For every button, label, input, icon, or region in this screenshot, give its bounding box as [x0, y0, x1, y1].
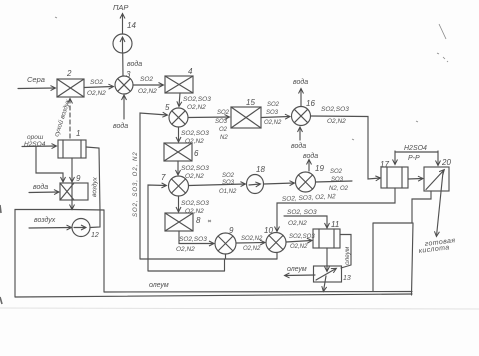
svg-text:O2,N2: O2,N2 [264, 120, 282, 126]
label SO2 SO3 O2,N2 (15-16) [264, 102, 282, 126]
label SO2,SO3 O2,N2 (8-9) [176, 236, 207, 253]
label воздух vertical [90, 176, 99, 197]
label SO2,N2 O2,N2 (9-10) [241, 236, 263, 252]
svg-text:SO2,SO3: SO2,SO3 [183, 96, 211, 103]
mixer 19 [296, 172, 316, 192]
svg-text:SO3: SO3 [331, 177, 344, 183]
label сухой воздух [52, 98, 72, 138]
svg-text:вода: вода [113, 122, 128, 130]
label SO2 SO3 N2 O2 (19 out) [329, 169, 349, 192]
label вода (3-14) [127, 60, 142, 68]
svg-text:O2,N2: O2,N2 [185, 173, 204, 180]
label 20 [441, 158, 451, 167]
mixer 10 [266, 233, 286, 253]
label SO2,SO3 O2,N2 (11 top) [287, 209, 317, 227]
svg-text:6: 6 [194, 149, 199, 158]
svg-text:2: 2 [66, 69, 72, 78]
wire 16 top vent [300, 89, 302, 106]
wire вода to 9 box [29, 191, 59, 194]
wire 16 to 17 [311, 116, 381, 179]
wire steam outlet ПАР [122, 14, 124, 34]
label Сера [27, 75, 45, 84]
converter 6 [164, 143, 192, 161]
label SO2 O2,N2 (3-4) [138, 76, 157, 95]
svg-text:4: 4 [188, 67, 193, 76]
wire 10 to 11 [286, 241, 312, 243]
svg-text:SO2,SO3: SO2,SO3 [179, 236, 207, 243]
label SO2,SO3 O2,N2 (7-8) [181, 200, 209, 215]
label 1 [76, 129, 80, 138]
label SO2 SO3 O1,N2 (7-18) [219, 173, 237, 195]
svg-text:19: 19 [315, 164, 324, 173]
svg-text:O2,N2: O2,N2 [138, 88, 157, 95]
wire 7 to 8 [178, 196, 180, 212]
wire 4 to 5 [179, 93, 180, 106]
svg-text:SO2: SO2 [267, 102, 280, 108]
svg-text:воздух: воздух [34, 216, 56, 224]
svg-text:ПАР: ПАР [113, 3, 128, 12]
label 6 [194, 149, 199, 158]
svg-text:O2,N2: O2,N2 [87, 90, 106, 97]
svg-text:O2,N2: O2,N2 [288, 220, 307, 227]
svg-text:SO2, SO3, O2, N2: SO2, SO3, O2, N2 [282, 193, 337, 203]
label 7 [161, 173, 166, 182]
svg-text:9: 9 [76, 174, 81, 183]
svg-text:16: 16 [306, 99, 315, 108]
svg-text:SO3: SO3 [266, 110, 279, 116]
scrubber 9 box [60, 183, 88, 200]
mixer 7 [169, 176, 189, 196]
label орош H2SO4 [24, 134, 46, 148]
wire mixer 9 bottom [225, 254, 227, 259]
wire recycle to 7 left [148, 185, 166, 271]
wire вода to 3 bottom [123, 96, 125, 120]
svg-text:14: 14 [127, 21, 136, 30]
wire 5 to 6 [178, 127, 180, 142]
svg-text:O2,N2: O2,N2 [327, 118, 346, 125]
svg-text:вода: вода [127, 60, 142, 68]
converter 4 [165, 76, 193, 93]
svg-text:7: 7 [161, 173, 166, 182]
svg-text:SO2, SO3, O2, N2: SO2, SO3, O2, N2 [133, 151, 139, 217]
svg-text:O2,N2: O2,N2 [185, 138, 204, 145]
svg-text:13: 13 [343, 275, 351, 282]
wire 15 to 16 [261, 117, 290, 118]
label 15 [246, 98, 255, 107]
svg-text:O2,N2: O2,N2 [290, 244, 308, 250]
svg-text:H2SO4: H2SO4 [404, 145, 427, 152]
mixer 5 [169, 108, 188, 127]
wire recycle drop x225 [224, 259, 226, 271]
svg-text:9: 9 [229, 226, 234, 235]
label готовая кислота [418, 237, 455, 255]
label 10 [264, 226, 273, 235]
wire 13 bottom drain [324, 276, 327, 291]
svg-text:вода: вода [291, 142, 306, 150]
label 16 [306, 99, 315, 108]
wire dry air dashed to 2 [69, 99, 71, 138]
svg-text:11: 11 [331, 220, 339, 229]
label воздух (fan inlet) [34, 216, 56, 224]
svg-text:олеум: олеум [149, 282, 169, 289]
label 8 [196, 216, 201, 225]
label SO2,SO3,O2,N2 (17-10 line) [282, 193, 337, 203]
wire воздух to fan 12 [29, 227, 71, 230]
svg-text:N2: N2 [220, 135, 228, 141]
label SO2,SO3 O2,N2 (6-7) [181, 165, 209, 180]
svg-text:SO2: SO2 [222, 173, 235, 179]
wire орош H2SO4 to 1 [22, 145, 56, 148]
wire 11 bottom to 13 [326, 248, 328, 271]
mixer 3 [115, 76, 133, 94]
svg-text:олеум: олеум [344, 246, 351, 265]
svg-text:SO2,SO3: SO2,SO3 [181, 130, 209, 137]
svg-text:10: 10 [264, 226, 273, 235]
furnace 2 [57, 79, 84, 97]
wire 19 top vent [308, 160, 310, 171]
wire 1 down through 9 box [71, 158, 73, 209]
wire 20 to product acid [437, 172, 444, 236]
label H2SO4 P-P [404, 145, 427, 162]
wire 3 to 4 [133, 84, 163, 86]
label олеум (bottom) [149, 282, 169, 289]
svg-text:1: 1 [76, 129, 80, 138]
svg-text:SO2,SO3: SO2,SO3 [321, 106, 349, 113]
label 12 [91, 232, 99, 239]
svg-text:O2,N2: O2,N2 [185, 208, 204, 215]
svg-text:SO2,N2: SO2,N2 [241, 236, 263, 242]
label 14 [127, 21, 136, 30]
svg-text:SO2,SO3: SO2,SO3 [181, 200, 209, 207]
svg-text:вода: вода [293, 78, 308, 86]
label SO2,SO3,O2,N2 vertical channel [133, 151, 139, 217]
svg-text:SO2: SO2 [140, 76, 153, 83]
wire oleum out left of 13 [285, 274, 315, 277]
wire recycle header lower [148, 270, 225, 272]
svg-text:орош: орош [27, 134, 44, 141]
wire 17 to 20 [408, 178, 423, 181]
svg-text:вода: вода [303, 152, 318, 160]
label 3 [126, 70, 131, 79]
svg-text:8: 8 [196, 216, 201, 225]
wire 9 to 10 [236, 242, 265, 245]
drying tower 1 [58, 140, 86, 158]
blower 18 [247, 175, 264, 194]
converter 8 [165, 213, 193, 231]
label 9 (mixer) [229, 226, 234, 235]
wire recycle to 5 left [140, 113, 167, 259]
svg-text:12: 12 [91, 232, 99, 239]
wire bottom oleum line [104, 291, 412, 294]
svg-text:SO2: SO2 [217, 110, 230, 116]
svg-text:H2SO4: H2SO4 [24, 141, 46, 148]
label ПАР [113, 3, 128, 12]
label SO2,SO3 O2,N2 (4-5) [183, 96, 211, 111]
svg-text:20: 20 [441, 158, 451, 167]
wire вода to 16 bottom [299, 128, 301, 141]
label 2 [66, 69, 72, 78]
wire outer bottom line [15, 294, 412, 297]
wire 7 to 18 [189, 184, 245, 186]
wire 2 to 3 [84, 87, 113, 88]
absorber 17 [381, 167, 408, 188]
wire 3 to steam drum 14 [122, 53, 124, 76]
svg-text:SO2: SO2 [330, 169, 343, 175]
svg-text:O1,N2: O1,N2 [219, 189, 237, 195]
fan 12 [72, 219, 90, 237]
svg-text:O2: O2 [219, 127, 228, 133]
wire recycle header upper [140, 258, 277, 260]
svg-text:SO2,SO3: SO2,SO3 [289, 234, 315, 240]
mixer 9 [215, 233, 236, 254]
label 4 [188, 67, 193, 76]
wire 11 right oleum loop [340, 235, 351, 269]
wire right lower loop [373, 223, 413, 295]
svg-text:SO3: SO3 [222, 180, 235, 186]
label 13 [343, 275, 351, 282]
svg-text:O2,N2: O2,N2 [187, 104, 206, 111]
svg-text:SO2,SO3: SO2,SO3 [181, 165, 209, 172]
svg-text:17: 17 [380, 160, 389, 169]
wire 5 to 15 [188, 116, 229, 119]
separator 20 [424, 167, 449, 191]
label вода вода (below 16) [291, 142, 318, 160]
label 19 [315, 164, 324, 173]
wire fan junction down [103, 210, 105, 292]
svg-text:Сера: Сера [27, 75, 45, 84]
svg-text:воздух: воздух [90, 176, 99, 197]
label вода (above 16) [293, 78, 308, 86]
wire 18 to 19 [264, 183, 295, 184]
svg-text:сухой воздух: сухой воздух [52, 98, 72, 138]
label 5 [165, 103, 170, 112]
wire left oleum loop [15, 210, 104, 298]
label олеум vertical (11-13) [344, 246, 351, 265]
label SO2,SO3 O2,N2 (10-11) [289, 234, 315, 250]
svg-text:15: 15 [246, 98, 255, 107]
wire acid bridge 17-20 [395, 151, 438, 165]
wire 17 bottom recycle to 10 [277, 188, 395, 231]
label SO2 SO3 O2 N2 (5-15) [215, 110, 230, 141]
wire mixer 10 bottom [276, 253, 278, 260]
label 11 [331, 220, 339, 229]
label вода (under 3) [113, 122, 128, 130]
label 9 (scrubber) [76, 174, 81, 183]
svg-text:олеум: олеум [287, 266, 307, 273]
wire branch orosh to 9 box [36, 147, 63, 182]
label олеум (13 left) [287, 266, 307, 273]
mixer 16 [292, 107, 311, 126]
svg-text:SO2: SO2 [90, 79, 103, 86]
svg-text:кислота: кислота [418, 244, 450, 255]
label SO2,SO3 O2,N2 (5-6) [181, 130, 209, 145]
catalyst tower 15 [231, 107, 261, 128]
wire air riser to 1 [86, 147, 100, 228]
svg-text:вода: вода [33, 183, 48, 191]
label 18 [256, 165, 265, 174]
wire 20 bottom recycle stair [412, 191, 431, 223]
svg-text:O2,N2: O2,N2 [176, 246, 195, 253]
valve 13 [314, 266, 342, 282]
pump 14 [113, 34, 132, 53]
svg-text:5: 5 [165, 103, 170, 112]
svg-text:Р-Р: Р-Р [408, 155, 420, 162]
svg-text:SO3: SO3 [215, 119, 228, 125]
absorber 11 [313, 229, 340, 248]
label вода (9 box) [33, 183, 48, 191]
wire 19 to 17 line [316, 181, 353, 182]
label SO2,SO3 O2,N2 (16 out) [321, 106, 349, 125]
svg-text:SO2, SO3: SO2, SO3 [287, 209, 317, 216]
label 17 [380, 160, 389, 169]
svg-text:18: 18 [256, 165, 265, 174]
wire into 11 top [284, 216, 327, 228]
wire Сера inlet arrow [18, 87, 55, 90]
wire 6 to 7 [177, 161, 179, 175]
label SO2 O2,N2 (2-3) [87, 79, 106, 97]
svg-text:O2,N2: O2,N2 [243, 246, 261, 252]
wire 8 to 9 [179, 231, 214, 244]
svg-text:N2, O2: N2, O2 [329, 186, 349, 192]
svg-text:3: 3 [126, 70, 131, 79]
